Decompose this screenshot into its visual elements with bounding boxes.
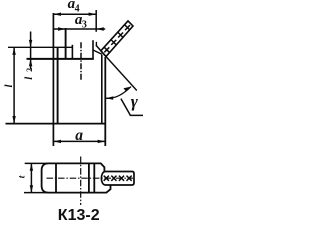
svg-text:3: 3: [82, 20, 87, 31]
svg-text:2: 2: [25, 68, 34, 72]
svg-text:К13-2: К13-2: [58, 207, 100, 224]
svg-text:a: a: [75, 127, 83, 144]
svg-text:t: t: [17, 175, 27, 178]
svg-text:γ: γ: [131, 92, 139, 111]
